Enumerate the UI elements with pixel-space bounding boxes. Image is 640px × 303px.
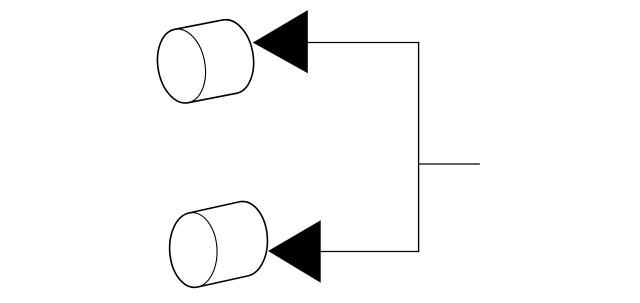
wire: middle stub (419, 163, 480, 165)
wire: bottom leader segment (321, 251, 420, 253)
arrowhead pointing to part 1 (253, 10, 308, 73)
part 2 cylinder (bottom) front face ellipse (168, 211, 219, 288)
wire: top leader segment (308, 42, 420, 44)
part 2 cylinder (bottom) body outline (170, 201, 268, 287)
arrowhead pointing to part 2 (268, 220, 321, 282)
wire: right vertical trunk (418, 42, 420, 252)
part 1 cylinder (top) body outline (157, 20, 253, 103)
part 1 cylinder (top) front face ellipse (152, 25, 211, 107)
